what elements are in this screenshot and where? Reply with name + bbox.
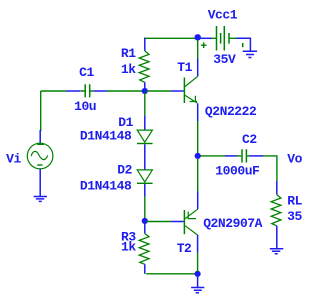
wire T1 emitter to output node — [197, 121, 199, 153]
transistor T2 emitter pin — [197, 192, 199, 210]
diode D1 anode pin — [144, 115, 146, 130]
capacitor C1 stubs — [81, 90, 94, 92]
svg-text:D1N4148: D1N4148 — [80, 178, 132, 193]
node output junction dot — [195, 153, 201, 159]
battery V1 Vcc1 symbol stubs — [212, 37, 237, 39]
resistor R3 pin top — [144, 223, 146, 234]
wire battery left pin — [201, 37, 212, 39]
wire D2 to node C — [144, 197, 146, 219]
ground at RL — [270, 249, 284, 254]
wire R3 to bottom node — [145, 272, 196, 275]
svg-text:35: 35 — [287, 209, 302, 224]
source Vi bottom pin — [39, 169, 41, 197]
transistor T1 body bar — [183, 78, 185, 104]
svg-text:Vo: Vo — [287, 151, 302, 166]
ground pin at bottom node — [197, 276, 199, 288]
diode D1 triangle — [137, 130, 152, 142]
wire output node to T2 emitter — [197, 159, 199, 192]
svg-text:35V: 35V — [213, 52, 236, 67]
transistor T2 base pin — [171, 221, 184, 223]
svg-text:RL: RL — [287, 193, 302, 208]
svg-text:1k: 1k — [121, 62, 136, 77]
wire Vi column — [40, 91, 42, 130]
battery plus marker — [201, 42, 207, 48]
resistor RL pin top — [276, 181, 278, 195]
capacitor C1 left pin — [66, 90, 80, 92]
capacitor C1 right pin — [93, 90, 107, 92]
ground at Vi — [34, 197, 47, 202]
wire T2 collector to bottom node — [197, 253, 199, 273]
transistor T1 collector pin — [197, 59, 199, 77]
wire C1 to node B — [107, 90, 143, 92]
transistor T1 emitter pin — [197, 103, 199, 121]
resistor R1 pin top — [144, 38, 146, 51]
capacitor C2 left pin — [225, 155, 237, 157]
source Vi plus marker — [37, 143, 44, 145]
wire node B to D1 — [144, 93, 146, 116]
capacitor C1 plates — [85, 84, 90, 97]
diode D1 cathode pin / D2 anode pin — [144, 144, 146, 170]
svg-text:D1: D1 — [118, 115, 133, 130]
transistor T2 body bar — [183, 210, 185, 234]
ground at Vcc1 — [243, 51, 257, 57]
transistor T2 collector diagonal — [185, 226, 198, 235]
wire output node to C2 — [201, 155, 226, 157]
node B junction dot — [142, 88, 148, 94]
transistor T1 emitter diagonal with arrow — [185, 95, 197, 103]
resistor R1 zigzag — [139, 51, 149, 82]
svg-text:D1N4148: D1N4148 — [80, 129, 132, 144]
svg-text:Q2N2222: Q2N2222 — [205, 104, 257, 119]
wire battery right pin to ground — [237, 38, 251, 51]
transistor T1 collector diagonal — [185, 76, 198, 86]
svg-text:R1: R1 — [121, 46, 136, 61]
svg-text:D2: D2 — [117, 163, 132, 178]
wire node C to T2 base — [147, 221, 171, 223]
diode D2 triangle — [137, 170, 152, 182]
resistor R3 zigzag — [139, 234, 149, 265]
ground at bottom node — [191, 288, 204, 293]
resistor R1 pin bottom — [144, 82, 146, 91]
capacitor C2 right pin — [249, 155, 263, 157]
svg-text:C2: C2 — [242, 132, 257, 147]
diode D2 cathode pin — [144, 184, 146, 197]
source Vi sine wave — [31, 151, 47, 159]
node C junction dot — [142, 218, 148, 224]
resistor RL pin bottom — [276, 226, 278, 249]
wire top rail from R1 to Vcc1 junction — [144, 37, 196, 39]
svg-text:T2: T2 — [177, 241, 192, 256]
source Vi minus marker — [37, 164, 42, 166]
transistor T2 collector pin — [197, 235, 199, 253]
source Vi circle — [27, 143, 53, 169]
transistor T1 base pin — [171, 90, 184, 92]
diode D2 cathode bar — [137, 182, 153, 184]
wire junction to T1 collector — [197, 40, 199, 59]
svg-text:Q2N2907A: Q2N2907A — [203, 216, 262, 231]
svg-text:T1: T1 — [177, 60, 192, 75]
svg-text:Vcc1: Vcc1 — [208, 8, 238, 23]
wire node B to T1 base — [147, 90, 171, 92]
wire input row left of C1 — [41, 90, 66, 92]
wire C2 to RL corner — [263, 155, 277, 181]
battery V1 plates — [217, 26, 230, 51]
svg-text:Vi: Vi — [6, 151, 21, 166]
svg-text:C1: C1 — [79, 65, 94, 80]
battery minus marker — [242, 43, 244, 47]
diode D1 cathode bar — [137, 143, 153, 145]
capacitor C2 stubs — [237, 155, 250, 157]
svg-text:10u: 10u — [74, 99, 96, 114]
capacitor C2 plates — [242, 149, 246, 162]
node Vcc1-top junction dot — [195, 34, 201, 40]
svg-text:1000uF: 1000uF — [215, 163, 260, 178]
source Vi top pin — [39, 130, 42, 144]
node bottom junction dot — [195, 271, 201, 277]
svg-text:1k: 1k — [121, 240, 136, 255]
resistor RL zigzag — [271, 195, 281, 226]
transistor T2 emitter diagonal with arrow — [185, 209, 198, 219]
resistor R3 pin bottom — [144, 264, 146, 274]
